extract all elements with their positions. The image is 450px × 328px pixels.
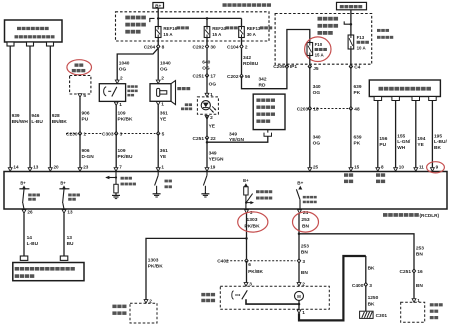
RCDLR bottom pin 26 (22, 210, 26, 214)
label 行李箱照明灯 (112, 305, 116, 309)
wire 946 L-BU from reference box to RCDLR pin 13 (29, 46, 31, 167)
svg-text:L-BU/: L-BU/ (434, 139, 447, 145)
status LED D1 dashed outline (197, 97, 218, 114)
RCDLR top pin 8 (376, 168, 380, 172)
battery node B+ (153, 3, 164, 9)
wire BK to ground (365, 256, 367, 311)
trunk lid switch pin 3 (244, 283, 248, 287)
horn pin 2 (156, 80, 160, 84)
svg-text:109: 109 (118, 148, 126, 154)
svg-text:30: 30 (210, 45, 216, 51)
remote control door lock receiver RCDLR box (4, 172, 447, 210)
trunk release motor M1 (295, 291, 304, 300)
label 报警器 (177, 87, 181, 90)
svg-text:342: 342 (243, 55, 251, 61)
label 状态指示灯 (185, 103, 188, 106)
svg-text:340: 340 (313, 135, 321, 141)
junction run/crank (350, 23, 353, 26)
label 行李箱盖开关 (201, 293, 205, 296)
svg-text:9: 9 (436, 164, 439, 169)
wire OG to status LED (206, 76, 208, 94)
fuse REF24 15A (204, 27, 210, 38)
wire 906 PU from ignition relay (79, 97, 81, 133)
svg-text:J5: J5 (313, 66, 319, 72)
trunk lamp pin 2 (144, 300, 148, 304)
junction on wire 253 (298, 233, 301, 236)
svg-text:56: 56 (245, 74, 251, 80)
horn pin 1 (156, 102, 160, 106)
wire REF24 fuse feed (206, 18, 208, 26)
hood contact switch symbol (104, 87, 107, 96)
reference box 防盗系统示意图 (253, 94, 285, 130)
wire branch 349 YE/GN to anti-theft reference (207, 136, 268, 142)
dashed connector line C203 (313, 108, 349, 110)
svg-text:PK/BK: PK/BK (248, 269, 263, 275)
svg-text:3: 3 (302, 259, 305, 265)
status LED D1 symbol (201, 101, 210, 110)
pin stub 1 of top-left reference box (7, 42, 14, 46)
svg-text:YE: YE (209, 124, 216, 130)
svg-text:BN: BN (301, 250, 308, 256)
svg-text:BN: BN (302, 224, 310, 230)
wire 1240 OG from C204 to horn (157, 49, 159, 80)
svg-text:C301: C301 (376, 313, 388, 319)
svg-text:1303: 1303 (148, 258, 159, 264)
svg-text:342: 342 (259, 77, 267, 83)
svg-text:B+: B+ (243, 178, 249, 183)
svg-text:8: 8 (381, 164, 384, 169)
wire 939 BN/WH from reference box to RCDLR pin 14 (9, 46, 11, 167)
svg-text:C104: C104 (227, 45, 239, 51)
RCDLR top pin 7 (114, 168, 118, 172)
RCDLR internal label 点火开关 (344, 173, 348, 177)
dashed connector line C402 (227, 260, 244, 262)
svg-text:2: 2 (120, 75, 123, 81)
svg-text:155: 155 (397, 134, 405, 140)
wire 340 OG from J5 (309, 67, 311, 109)
svg-text:23: 23 (83, 164, 89, 169)
svg-text:BN/WH: BN/WH (12, 119, 29, 125)
svg-text:YE/GN: YE/GN (209, 157, 224, 163)
svg-text:1040: 1040 (119, 61, 130, 67)
svg-text:PU: PU (82, 117, 89, 123)
svg-text:7: 7 (119, 164, 122, 169)
svg-text:3: 3 (249, 282, 252, 288)
svg-text:340: 340 (313, 84, 321, 90)
hood contact switch S2 box (99, 84, 125, 102)
svg-text:6: 6 (248, 262, 251, 268)
svg-text:195: 195 (434, 134, 442, 140)
power distribution reference text 线路系统中的配电示意图 (125, 16, 130, 20)
svg-text:2: 2 (210, 115, 213, 121)
trunk lamp E1 dashed outline (130, 303, 157, 323)
svg-text:156: 156 (379, 136, 387, 142)
connector pin J5 (308, 65, 311, 69)
wire branch 1303 PK/BK to trunk lamp (146, 238, 247, 299)
svg-text:3: 3 (369, 283, 372, 289)
wire 253 BN from RCDLR pin 24 (298, 213, 300, 234)
pin stub left of turn signal reference box (20, 256, 28, 260)
RCDLR bottom pin 24 (298, 210, 302, 214)
RCDLR top pin 10 (394, 168, 398, 172)
wire 361 YE to RCDLR pin 1 (157, 134, 159, 168)
trunk switch and motor dashed outline (220, 286, 329, 309)
svg-text:349: 349 (209, 151, 217, 157)
trunk release motor pin 1 (297, 310, 301, 314)
wire 195 L-BU/BK to RCDLR pin 9 (431, 101, 433, 168)
wire 906 D-GN to RCDLR pin 23 (79, 134, 81, 168)
label 遥控门锁接收器(RCDLR) (383, 213, 388, 217)
status LED pin 2 (205, 116, 209, 120)
RCDLR internal: switch to ground at pin 19 (206, 172, 208, 176)
svg-text:253: 253 (301, 244, 309, 250)
svg-text:L-BU: L-BU (27, 241, 39, 247)
svg-text:BN: BN (416, 283, 423, 289)
RCDLR top pin 23 (78, 168, 82, 172)
instrument panel fuse box dashed outline (275, 14, 372, 65)
svg-text:C400: C400 (352, 283, 364, 289)
svg-text:OG: OG (209, 82, 217, 88)
svg-text:PK: PK (354, 141, 361, 147)
svg-text:L-BU: L-BU (31, 119, 43, 125)
svg-text:1040: 1040 (160, 61, 171, 67)
svg-text:C251: C251 (193, 74, 205, 80)
pin stub 2 of top-left reference box (27, 42, 34, 46)
wire from B+ into fuse box (157, 8, 159, 26)
wire 13 BU from RCDLR pin 13 (63, 213, 65, 256)
svg-text:13: 13 (67, 235, 73, 241)
red circle around RCDLR pin 9 (427, 162, 445, 173)
svg-text:OG: OG (202, 66, 210, 72)
svg-text:RD: RD (259, 82, 266, 88)
ignition relay pin 5 (78, 94, 82, 98)
svg-text:PK: PK (354, 90, 361, 96)
svg-text:WH: WH (397, 145, 406, 151)
junction on wire 1303 (245, 237, 248, 240)
svg-text:30 A: 30 A (247, 32, 257, 37)
RCDLR top pin 15 (349, 168, 353, 172)
junction under motor (298, 303, 301, 306)
svg-text:REF13: REF13 (247, 26, 261, 31)
ground inside RCDLR at hood input (115, 193, 117, 196)
wire 155 L-GN/WH to RCDLR pin 10 (395, 101, 397, 168)
wire 14 L-BU from RCDLR pin 26 (23, 213, 25, 256)
svg-text:L-GN/: L-GN/ (397, 139, 411, 145)
svg-text:2: 2 (149, 299, 152, 305)
svg-text:OG: OG (160, 67, 168, 73)
svg-text:C205: C205 (273, 64, 285, 70)
wire 253 BN to trunk release motor (298, 234, 300, 282)
svg-text:20: 20 (54, 164, 60, 169)
svg-text:48: 48 (354, 107, 360, 113)
wire 361 YE from horn (157, 105, 159, 133)
label 仪表板保险丝盒 (377, 29, 381, 32)
wire fuse REF16 to connector C204 (157, 38, 159, 45)
reference box 车门电动门锁 (369, 80, 440, 97)
svg-text:14: 14 (13, 164, 19, 169)
horn H1 symbol (报警器) (171, 81, 176, 105)
svg-text:B+: B+ (297, 180, 303, 185)
svg-text:10 A: 10 A (357, 45, 367, 50)
svg-text:1: 1 (417, 298, 420, 304)
svg-text:22: 22 (210, 136, 216, 142)
wire motor to pin 1 (298, 300, 300, 309)
connector C402 pin 3 on motor wire (297, 259, 300, 263)
svg-text:PK/BU: PK/BU (118, 154, 133, 160)
wire REF13 fuse feed (241, 18, 243, 26)
junction on wire 349 (206, 141, 209, 144)
svg-text:C4: C4 (354, 65, 360, 71)
svg-text:639: 639 (354, 135, 362, 141)
svg-text:BU: BU (67, 241, 74, 247)
svg-text:1250: 1250 (368, 295, 379, 301)
svg-text:C202: C202 (193, 45, 205, 51)
hood contact switch pin 2 (115, 80, 119, 84)
svg-text:BN: BN (416, 252, 423, 258)
RCDLR top pin 19 (205, 168, 209, 172)
bracket from reference text to B+ bus (150, 18, 155, 22)
wire 928 BN/BK from reference box to RCDLR pin 20 (49, 46, 51, 167)
wire 194 YE to RCDLR pin 11 (415, 101, 417, 168)
svg-text:2: 2 (161, 75, 164, 81)
connector pin C4 (349, 65, 352, 69)
svg-text:1: 1 (83, 132, 86, 138)
svg-text:349: 349 (229, 131, 237, 137)
svg-text:C230: C230 (66, 132, 78, 138)
wire 639 PK from C4 (350, 67, 352, 109)
svg-text:13: 13 (67, 209, 73, 214)
svg-text:C202: C202 (227, 74, 239, 80)
ignition relay label circled in red (点火继电器) (67, 60, 92, 75)
ground G301 symbol (360, 311, 374, 318)
svg-text:RD/BU: RD/BU (243, 61, 259, 67)
svg-text:1: 1 (119, 102, 122, 108)
svg-text:YE: YE (160, 117, 167, 123)
RCDLR top pin 1 (156, 168, 160, 172)
svg-text:C203: C203 (297, 107, 309, 113)
wire run/crank to fuse F13 (350, 10, 352, 35)
svg-text:8: 8 (162, 45, 165, 51)
svg-text:361: 361 (160, 148, 168, 154)
connector C303 pin 5 (157, 132, 160, 136)
wire inside fuse box from IP1 to fuse F10 (287, 30, 310, 67)
svg-text:2: 2 (245, 45, 248, 51)
ground wire from motor (thick) (299, 256, 366, 320)
status LED pin 1 (205, 93, 209, 97)
wire 1040 OG from C204 to hood contact switch (117, 49, 158, 80)
door lock box pin stub 4 (429, 97, 437, 101)
svg-text:BK: BK (368, 265, 375, 271)
ground inside RCDLR at pin 19 (204, 191, 206, 194)
trunk release switch S4 dashed outline (401, 302, 425, 322)
svg-text:IP1: IP1 (290, 64, 298, 70)
bracket from reference text to run/crank wire (344, 21, 351, 24)
fuse F10 15A circled in red (307, 43, 313, 56)
wire YE from status LED (206, 115, 208, 138)
fuse REF13 30A (239, 27, 245, 38)
svg-text:946: 946 (31, 113, 39, 119)
wire 639 PK to RCDLR pin 15 (350, 109, 352, 168)
B+ bus wire inside fuse box (158, 17, 241, 19)
pin stub right of turn signal reference box (60, 256, 68, 260)
ground inside RCDLR at alarm control (156, 191, 158, 194)
hood contact switch pin 1 (114, 102, 118, 106)
RCDLR top pin 9 (431, 168, 435, 172)
svg-text:BK: BK (434, 145, 441, 151)
reference box: 遥控门锁示意图 (top-left) (5, 20, 63, 42)
svg-text:15 A: 15 A (163, 32, 173, 37)
svg-text:14: 14 (27, 235, 33, 241)
dashed connector line C230/C303 (66, 133, 77, 135)
svg-text:C303: C303 (102, 132, 114, 138)
svg-text:15: 15 (354, 164, 360, 169)
svg-text:BK: BK (368, 301, 375, 307)
svg-text:PK/BK: PK/BK (118, 117, 133, 123)
svg-text:YE: YE (160, 154, 167, 160)
wire F10 to connector J5 (309, 56, 311, 67)
svg-text:C204: C204 (144, 45, 156, 51)
junction at B+ feed (157, 17, 160, 20)
svg-text:906: 906 (82, 111, 90, 117)
svg-text:YE/GN: YE/GN (229, 137, 244, 143)
svg-text:M: M (297, 294, 301, 299)
RCDLR top pin 14 (8, 168, 12, 172)
svg-text:PK/BK: PK/BK (244, 224, 260, 230)
svg-text:2: 2 (302, 282, 305, 288)
trunk release switch pin 1 (412, 299, 416, 303)
svg-text:B+: B+ (20, 180, 26, 185)
svg-text:YE: YE (417, 142, 424, 148)
svg-text:10: 10 (399, 164, 405, 169)
stub from anti-theft reference box (267, 130, 269, 133)
wire F13 to connector C4 (350, 49, 352, 67)
svg-text:109: 109 (118, 111, 126, 117)
trunk release motor pin 2 (297, 283, 301, 287)
wire 342 RD to instrument panel fuse box pin IP1 (242, 68, 287, 89)
trunk lid switch S3 symbol (232, 291, 234, 299)
wire 349 YE/GN to RCDLR pin 19 (206, 138, 208, 168)
svg-text:C251: C251 (193, 136, 205, 142)
svg-text:194: 194 (417, 136, 425, 142)
wire fuse REF13 to connector C104 (241, 38, 243, 45)
RCDLR internal: hood ajar input with resistor and ground 发动机罩盖半开 (115, 172, 117, 185)
svg-text:C402: C402 (217, 259, 229, 265)
wire 109 PK/BU to RCDLR pin 7 (115, 134, 117, 168)
door lock box pin stub 1 (374, 97, 382, 101)
svg-text:15 A: 15 A (315, 53, 325, 58)
RCDLR top pin 25 (308, 168, 312, 172)
svg-text:1303: 1303 (247, 217, 258, 223)
svg-text:B+: B+ (60, 180, 66, 185)
wire 340 OG to RCDLR pin 25 (309, 109, 311, 168)
power distribution reference text right 线路系统中的配电示意图 (318, 17, 323, 21)
reference box 转向信号示意图 (13, 263, 84, 281)
svg-text:253: 253 (416, 246, 424, 252)
wire 156 PU to RCDLR pin 8 (377, 101, 379, 168)
svg-text:PK/BK: PK/BK (148, 264, 163, 270)
label 发动机罩接触开关 (127, 85, 130, 88)
junction at fuse REF24 feed (206, 17, 209, 20)
svg-text:OG: OG (119, 67, 127, 73)
wire 109 PK/BK from hood switch (115, 106, 117, 134)
wire fuse REF24 to connector C202 (206, 38, 208, 45)
door lock box pin stub 3 (412, 97, 420, 101)
label 行李箱释放开关 (430, 303, 434, 306)
svg-text:906: 906 (82, 148, 90, 154)
wire PK/BK to trunk lid switch (246, 261, 248, 282)
RCDLR top pin 20 (48, 168, 52, 172)
svg-text:C251: C251 (400, 269, 412, 275)
run/crank node 运行/曲柄 (337, 2, 367, 9)
svg-text:17: 17 (210, 74, 216, 80)
svg-text:13: 13 (33, 164, 39, 169)
svg-text:5: 5 (83, 93, 86, 99)
pin stub 3 of top-left reference box (47, 42, 54, 46)
svg-text:26: 26 (27, 209, 33, 214)
svg-text:(RCDLR): (RCDLR) (420, 213, 440, 218)
wire 640 OG from C202 (206, 49, 208, 74)
svg-text:D-GN: D-GN (82, 154, 95, 160)
svg-text:1: 1 (161, 102, 164, 108)
svg-text:OG: OG (313, 90, 321, 96)
svg-text:18: 18 (313, 107, 319, 113)
svg-text:25: 25 (313, 164, 319, 169)
svg-text:REF24: REF24 (212, 26, 226, 31)
wire 342 RD/BU from C104 (241, 49, 243, 74)
RCDLR internal: alarm control switch 报警控制 (157, 172, 159, 176)
svg-text:939: 939 (12, 113, 20, 119)
svg-text:OG: OG (313, 141, 321, 147)
ignition relay K1 dashed outline (70, 76, 91, 95)
RCDLR internal label 车门半开 (376, 173, 380, 177)
svg-text:639: 639 (354, 84, 362, 90)
connector C203 pin 48 (349, 107, 352, 111)
svg-text:928: 928 (52, 113, 60, 119)
svg-text:361: 361 (160, 111, 168, 117)
wire from trunk switch to motor (246, 299, 299, 304)
bracket node under anti-theft box (264, 133, 272, 137)
wire branch 253 BN to trunk release switch (299, 234, 414, 298)
svg-text:3: 3 (120, 132, 123, 138)
svg-text:BN: BN (301, 270, 308, 276)
engine bay fuse box dashed outline (116, 12, 270, 41)
svg-text:5: 5 (162, 132, 165, 138)
fuse REF16 15A (155, 27, 161, 38)
svg-text:PU: PU (379, 142, 386, 148)
svg-text:640: 640 (202, 60, 210, 66)
svg-text:F13: F13 (357, 35, 365, 40)
svg-text:1: 1 (302, 310, 305, 316)
RCDLR top pin 13 (28, 168, 32, 172)
svg-text:REF16: REF16 (163, 26, 177, 31)
wire 1303 PK/BK from RCDLR pin 3 (246, 213, 248, 261)
svg-text:BN/BK: BN/BK (52, 119, 68, 125)
svg-text:11: 11 (419, 164, 424, 169)
fuse F13 10A (348, 35, 354, 49)
RCDLR top pin 11 (414, 168, 418, 172)
svg-text:19: 19 (210, 164, 216, 169)
RCDLR bottom pin 13 (62, 210, 66, 214)
svg-text:1: 1 (161, 164, 164, 169)
svg-text:15 A: 15 A (212, 32, 222, 37)
door lock box pin stub 2 (392, 97, 400, 101)
svg-text:253: 253 (301, 217, 309, 223)
RCDLR bottom pin 3 (245, 210, 249, 214)
label 发动机舱盖下保险丝盒 (engine bay fuse box title) (223, 3, 227, 7)
svg-text:F10: F10 (315, 42, 323, 47)
svg-text:16: 16 (417, 269, 423, 275)
